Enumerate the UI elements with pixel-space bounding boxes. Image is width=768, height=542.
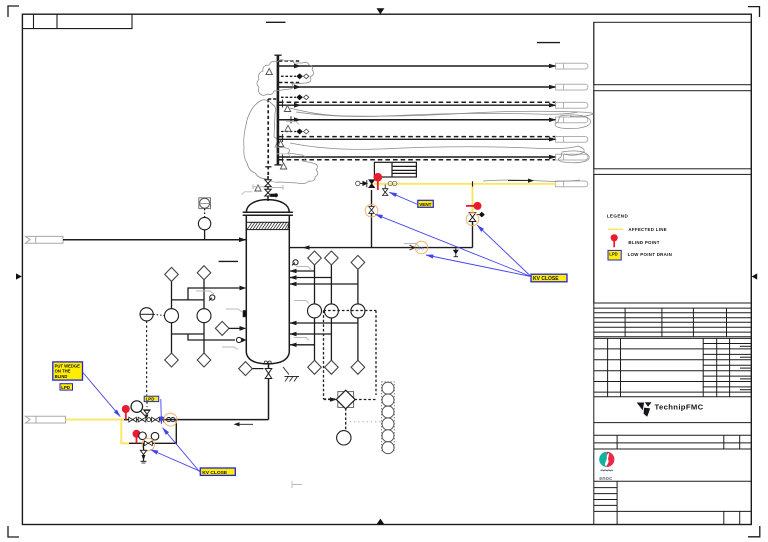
svg-text:LPD: LPD xyxy=(609,251,617,256)
gray nozzle tag marks xyxy=(196,122,419,489)
pipe P1 arrow xyxy=(294,64,301,69)
pipe P4 xyxy=(278,116,556,123)
pipe P3 traced xyxy=(278,102,556,107)
leaders from KV CLOSE 2 xyxy=(151,428,201,473)
PUT WEDGE callout xyxy=(53,362,83,380)
loop around connector4 xyxy=(555,115,591,129)
box2 xyxy=(594,91,752,169)
box1 top strip xyxy=(594,22,752,84)
right bridle diamonds bottom xyxy=(308,360,365,374)
red blind point B1 xyxy=(122,405,130,420)
nozzle branches right side xyxy=(289,270,314,272)
wavy near yellow line right xyxy=(483,180,580,181)
off-page connector C5 xyxy=(556,137,588,143)
lower-left small rows xyxy=(594,481,752,524)
approval table xyxy=(594,338,752,396)
bypass valve circles xyxy=(139,432,147,440)
svg-text:BLIND POINT: BLIND POINT xyxy=(628,240,659,245)
interlock square xyxy=(338,392,354,408)
corner mark bottom-right xyxy=(748,526,760,537)
pipe arrows at connectors xyxy=(549,64,557,159)
instrument stem xyxy=(204,230,206,240)
packing band hatched xyxy=(246,222,289,229)
legend LPD symbol xyxy=(608,250,621,260)
diamond instrument TL xyxy=(165,266,211,367)
long wavy along pipe5 xyxy=(290,143,584,155)
circle instruments mid xyxy=(165,309,179,323)
pipe P2 trace dashed stub xyxy=(279,82,300,84)
instrument flag triangles xyxy=(255,69,291,192)
rev bubble on line xyxy=(415,241,428,254)
dotted horizontal link xyxy=(346,421,381,423)
off-page connector C2 xyxy=(556,84,588,90)
affected line vertical at x472 xyxy=(472,184,474,213)
pipe start ticks xyxy=(282,100,284,108)
svg-text:KV CLOSE: KV CLOSE xyxy=(533,276,559,282)
svg-text:BLIND: BLIND xyxy=(55,374,68,379)
KV CLOSE tag 1 xyxy=(531,274,567,282)
off-page connector C6 xyxy=(556,154,588,160)
pipe P5 traced xyxy=(278,137,556,140)
valve pair xyxy=(265,180,271,187)
vessel top dome xyxy=(246,200,289,213)
circle stack dotted box xyxy=(382,382,395,451)
corner mark top-right xyxy=(748,7,760,17)
drain header xyxy=(123,419,269,421)
vessel flange lines xyxy=(243,211,293,213)
drop leg arrow xyxy=(142,455,146,461)
right bridle diamonds top xyxy=(308,251,365,269)
blue signal from LPD tag xyxy=(160,399,163,424)
long wavy along pipe3 xyxy=(290,108,593,117)
pipe P1 xyxy=(278,65,556,67)
vent line small fittings at x372 xyxy=(356,180,375,188)
spectacle blind on vent xyxy=(388,181,397,185)
top-left title strip xyxy=(22,14,132,28)
instrument FI circle xyxy=(198,217,210,229)
spare label line xyxy=(219,260,238,262)
feed arrow into vessel xyxy=(239,237,246,242)
outlet small circles xyxy=(264,361,267,364)
gauge drain dotted line xyxy=(146,321,148,396)
svg-text:AFFECTED LINE: AFFECTED LINE xyxy=(628,227,667,232)
gray supports xyxy=(253,186,264,188)
dashed stubs into interlock xyxy=(355,399,377,401)
dashed drop to circle xyxy=(345,408,347,430)
corner mark bottom-left xyxy=(8,526,19,537)
red blind point B2 xyxy=(133,430,141,444)
vessel bottom dome xyxy=(246,353,289,364)
header H2 dashed trace riser xyxy=(267,99,269,178)
dashed signal box xyxy=(324,311,377,400)
rev bubble on drain xyxy=(164,413,177,426)
junction tick at yellow corner xyxy=(472,181,474,186)
legend affected line sample xyxy=(608,228,623,230)
bypass loop yellow part xyxy=(121,420,131,444)
spare label line top xyxy=(537,42,560,44)
interlock circle xyxy=(337,431,351,445)
pump circle xyxy=(131,401,143,413)
title block outer column xyxy=(593,22,595,524)
LPD tag bottom-left xyxy=(60,384,73,390)
nozzle flange block left xyxy=(243,311,246,317)
arrow toward vessel xyxy=(303,245,310,249)
loop around connector6 xyxy=(558,151,589,163)
rev bubble on black drop xyxy=(365,204,378,217)
legend blind point symbol xyxy=(611,234,618,241)
svg-text:LOW POINT DRAIN: LOW POINT DRAIN xyxy=(628,252,673,257)
black diamond at riser xyxy=(479,212,485,218)
TechnipFMC band xyxy=(594,422,752,424)
vent riser black xyxy=(472,222,474,248)
drain off-page connector xyxy=(26,416,66,423)
leaders from KV CLOSE 1 xyxy=(375,214,531,276)
centering tick bottom xyxy=(377,519,385,525)
small instrument bubble on left mid xyxy=(209,295,215,301)
affected line top (vent header) xyxy=(374,183,556,185)
leader from PUT WEDGE to blind xyxy=(83,372,121,417)
svg-text:VENT: VENT xyxy=(419,202,431,207)
rev bubble on bypass xyxy=(142,438,154,450)
drop leg end ticks xyxy=(141,460,147,462)
relief stub D1 xyxy=(281,73,309,79)
box3 legend box xyxy=(594,174,752,303)
shared display instrument (square+circle) xyxy=(199,198,211,209)
revision clouds (gray wavy) xyxy=(244,60,594,184)
line from vessel to vent riser xyxy=(289,247,472,249)
circle stack xyxy=(382,382,394,454)
interlock diamond xyxy=(336,390,355,409)
black drop from vent xyxy=(371,190,373,248)
cloud around pipe1/2 stubs xyxy=(257,60,314,96)
enoc band bottom xyxy=(594,480,752,482)
svg-text:enoc: enoc xyxy=(599,476,612,482)
outlet line down xyxy=(268,364,270,420)
spare label line below top border xyxy=(266,21,286,23)
column L1 xyxy=(171,281,173,354)
small instrument bubble right top xyxy=(292,260,298,266)
corner mark top-left xyxy=(8,6,19,17)
svg-text:LPD: LPD xyxy=(146,397,155,402)
diamond instrument left of vessel mid xyxy=(215,321,229,335)
nozzle arrows left xyxy=(240,286,247,291)
rev bubble at riser valve xyxy=(466,213,479,226)
valves on drain header xyxy=(129,417,164,422)
riser valves above dome xyxy=(253,180,283,197)
header H1 end ticks xyxy=(274,54,281,56)
svg-text:LPD: LPD xyxy=(61,385,70,390)
label table near vent xyxy=(374,162,416,177)
TechnipFMC logo xyxy=(637,402,704,416)
open flow arrow on line xyxy=(410,245,416,250)
cross links xyxy=(172,299,205,301)
centering tick top xyxy=(377,8,385,14)
riser to vessel dome xyxy=(267,176,269,201)
off-page connector C3 xyxy=(556,102,588,108)
svg-text:(04): (04) xyxy=(417,246,425,251)
spectacle blind on drain xyxy=(167,418,175,422)
check funnel near pump xyxy=(144,410,149,414)
signal dotted to instrument xyxy=(204,209,206,218)
affected yellow drain line xyxy=(66,419,125,421)
branch to vessel upper xyxy=(188,288,241,300)
off-page connector C1 xyxy=(556,63,588,69)
off-page connector C4 xyxy=(556,117,588,123)
drain funnel symbol xyxy=(144,410,150,414)
outlet valve xyxy=(265,369,272,379)
relief stub D3 xyxy=(281,129,309,135)
svg-text:TechnipFMC: TechnipFMC xyxy=(655,402,704,411)
feed off-page connector xyxy=(26,236,64,243)
mid table rows xyxy=(594,435,752,449)
pipe P1 trace dashed stub xyxy=(279,60,300,62)
drop leg funnel xyxy=(140,450,146,454)
small bleed valve xyxy=(383,185,388,196)
bleed stub on line at x456 xyxy=(454,248,458,257)
handle xyxy=(271,194,274,196)
ENOC logo xyxy=(599,452,614,482)
bypass globe valve xyxy=(144,441,152,446)
relief stub D2 xyxy=(281,94,309,100)
centering tick right xyxy=(752,273,758,279)
centering tick left xyxy=(16,273,22,279)
off-page connector C7 yellow vent line xyxy=(556,181,588,187)
header H1 xyxy=(277,56,280,165)
flow arrow on yellow line xyxy=(508,179,534,183)
red blind point B4 xyxy=(374,173,383,190)
red blind point B3 (horizontal) xyxy=(466,202,482,210)
column L2 xyxy=(203,279,205,354)
big sweeping cloud left of headers xyxy=(244,100,318,184)
right bridle circles xyxy=(308,304,322,318)
bypass drop leg xyxy=(143,443,145,461)
KV CLOSE tag 2 xyxy=(200,468,235,476)
pipe P2 arrow xyxy=(294,85,301,90)
branch to vessel lower xyxy=(188,334,235,340)
svg-text:LEGEND: LEGEND xyxy=(607,214,629,219)
ring on lower branch xyxy=(236,337,241,342)
bypass loop black part xyxy=(129,420,176,444)
pipe P2 xyxy=(278,86,556,88)
diamond instrument below-left of vessel xyxy=(239,362,253,376)
arrows into vessel right side xyxy=(289,269,296,347)
vent riser valve xyxy=(469,213,476,222)
revision table xyxy=(594,308,752,337)
earthing symbol xyxy=(283,367,299,382)
feed line xyxy=(63,239,246,241)
svg-text:KV CLOSE: KV CLOSE xyxy=(202,470,228,476)
vessel shell xyxy=(245,215,247,352)
LPD tag on pump xyxy=(144,396,159,402)
VENT yellow tag xyxy=(418,200,434,207)
level gauge LG xyxy=(140,308,165,321)
arrow into interlock xyxy=(330,397,337,401)
flow arrow left xyxy=(234,422,254,426)
pipe P6 traced xyxy=(278,157,556,160)
blue leader from VENT tag to bleed xyxy=(389,192,418,204)
